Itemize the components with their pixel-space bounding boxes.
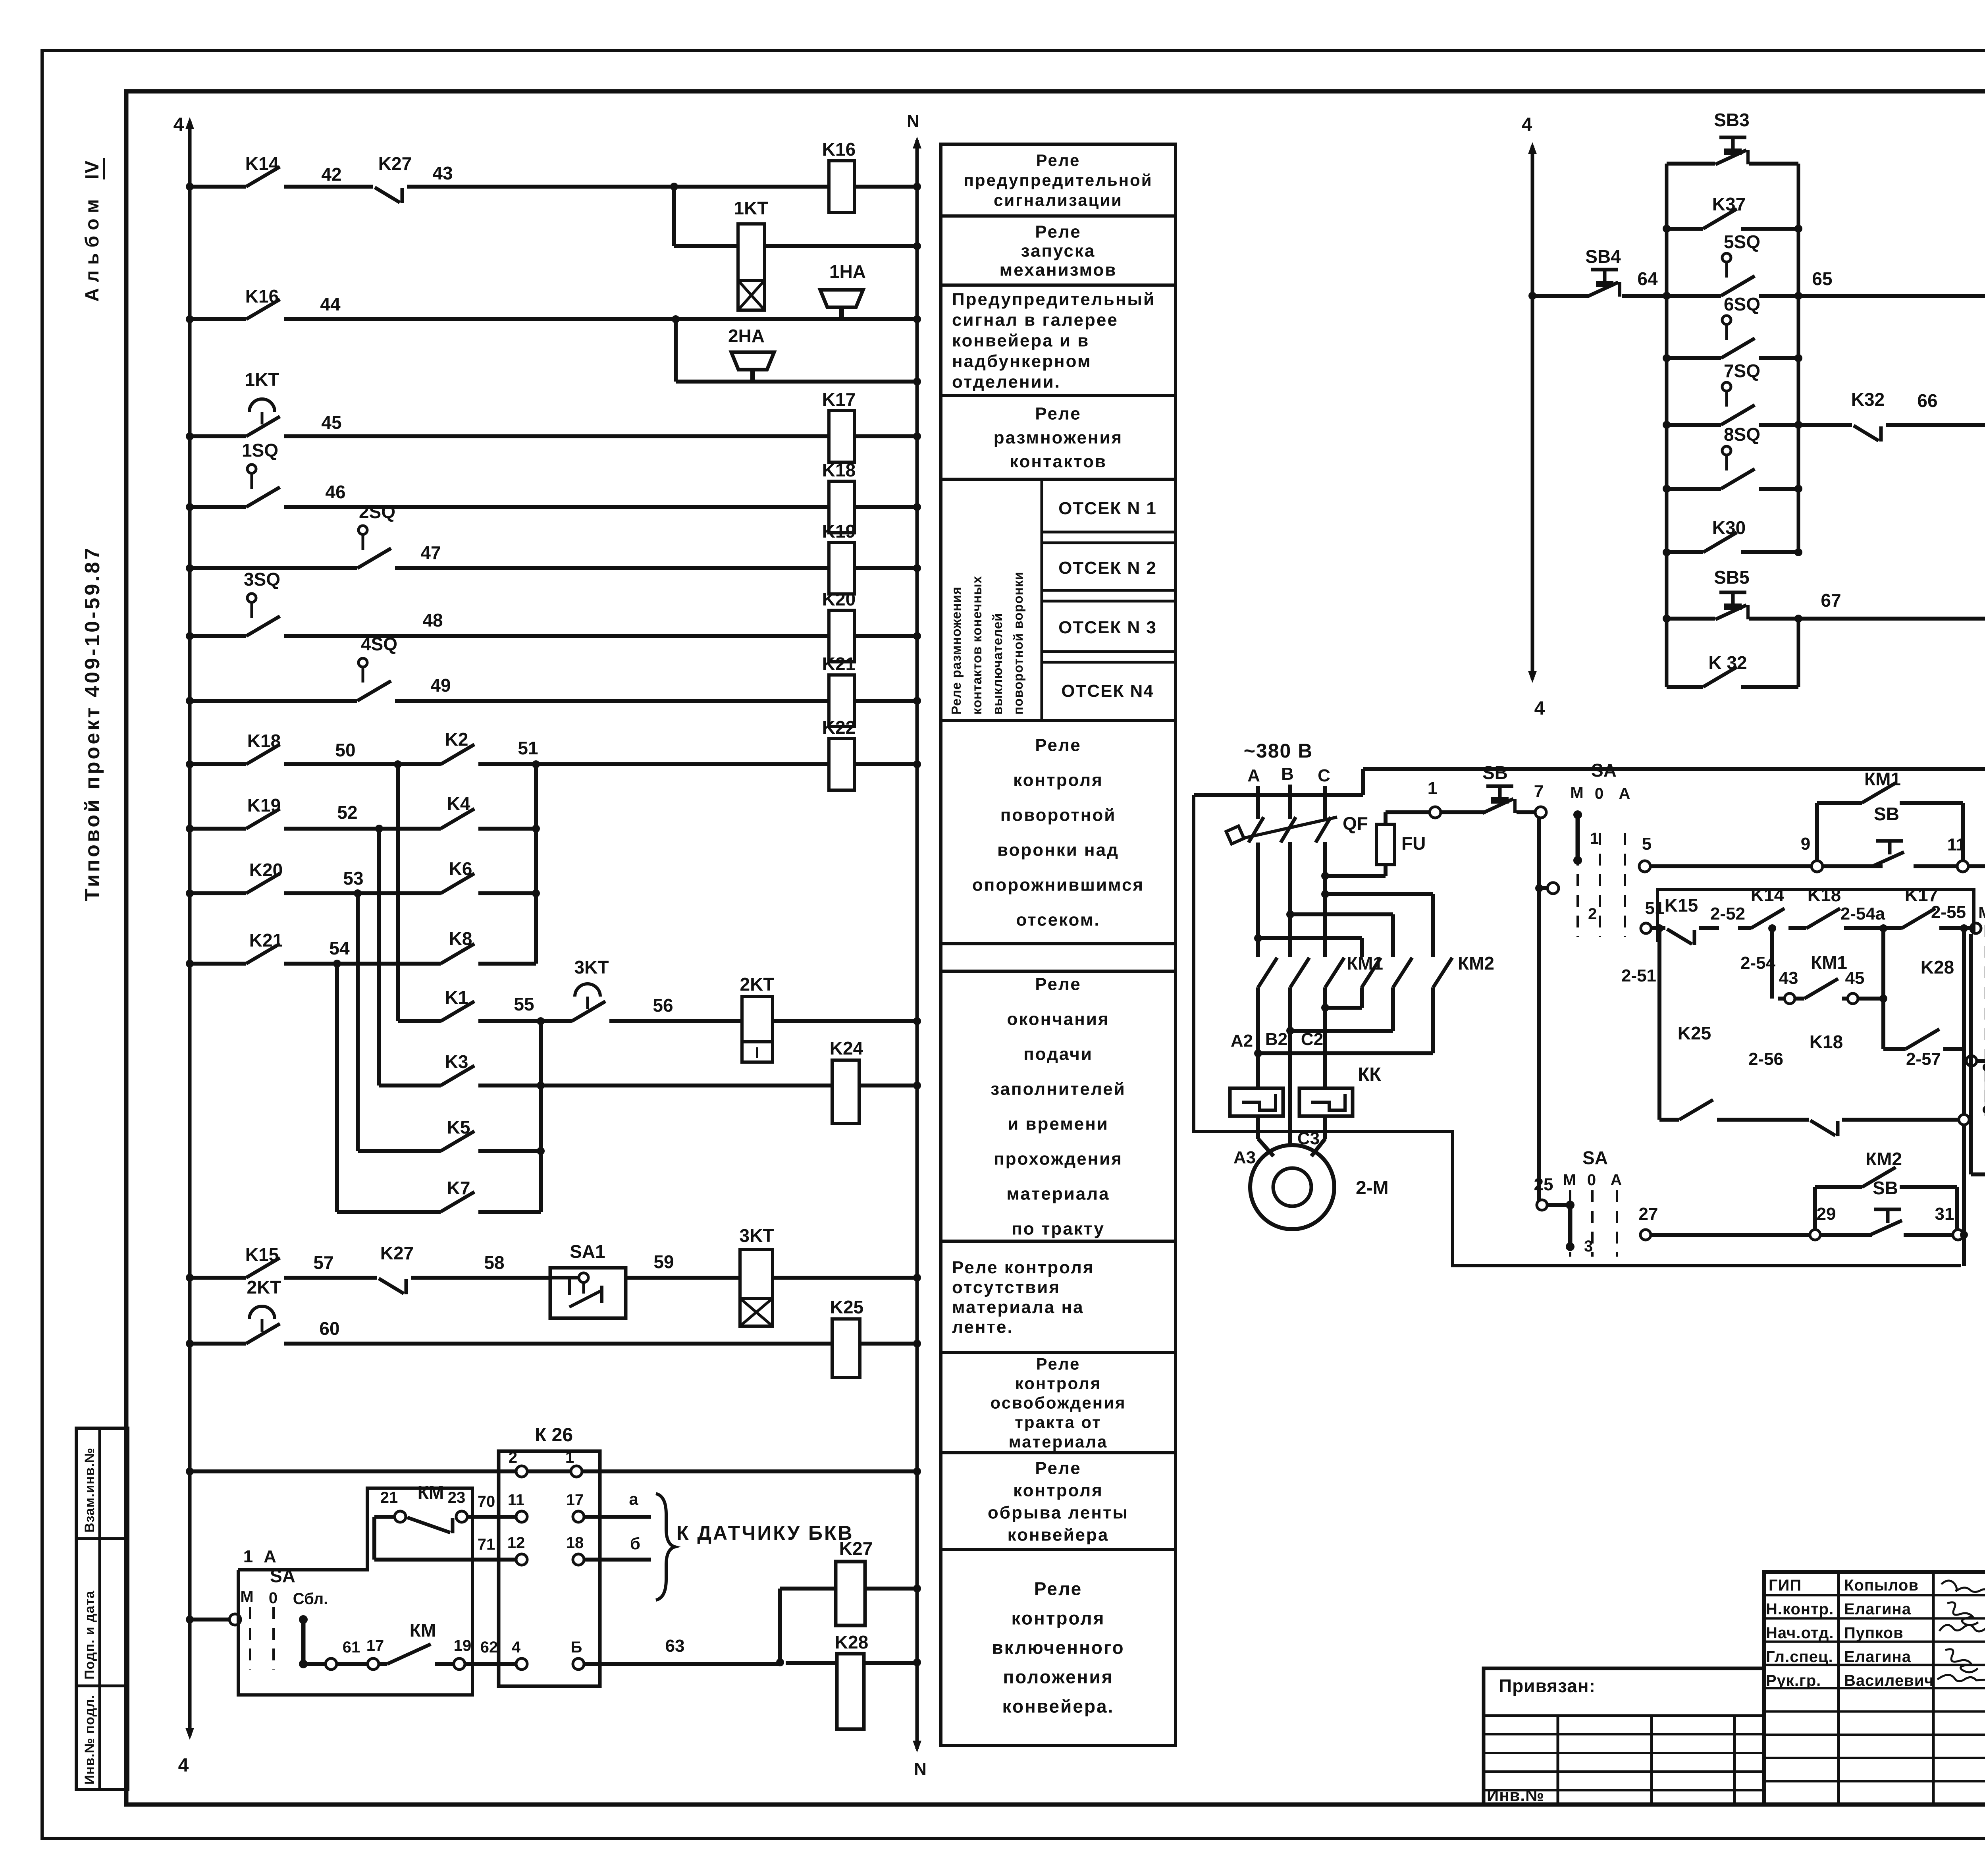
wire crossover C2: [1323, 987, 1327, 1008]
svg-text:12: 12: [507, 1534, 525, 1552]
contact K14: [246, 167, 280, 187]
junction A to KM2: [1254, 934, 1262, 942]
svg-text:1KT: 1KT: [734, 198, 769, 218]
thermal relay KK heater left: [1230, 1088, 1283, 1116]
svg-text:K21: K21: [249, 930, 283, 951]
svg-text:подачи: подачи: [1023, 1044, 1093, 1064]
junction K5 at node F vertical: [537, 1147, 545, 1155]
branch contact 7SQ: [1667, 423, 1721, 427]
limit switch contact 7SQ: [1722, 382, 1731, 391]
wire 70 from terminal 23 to pin 11: [467, 1515, 516, 1519]
svg-text:K7: K7: [447, 1178, 470, 1198]
wire rung 50-51: [190, 762, 246, 766]
junction B to KM2: [1286, 910, 1294, 918]
svg-text:опорожнившимся: опорожнившимся: [972, 875, 1144, 895]
selector switch SA middle dashed columns: [1985, 925, 1985, 1116]
junction K27 at N bus: [913, 1585, 921, 1593]
junction rung18 at N bus: [913, 1467, 921, 1475]
svg-text:1HA: 1HA: [829, 261, 866, 282]
contact segment SA M upper: [1576, 815, 1580, 860]
brace to BKV sensor: [656, 1494, 675, 1600]
wire crossover A2: [1256, 987, 1260, 1053]
terminal 1 control feed: [1430, 807, 1441, 818]
svg-text:K20: K20: [249, 860, 283, 880]
svg-text:K15: K15: [245, 1244, 279, 1265]
wire rung 46: [190, 505, 246, 509]
contact K15 (NC): [1667, 929, 1692, 944]
right rail of parallel group upper: [1797, 164, 1800, 552]
junction rung1 to 1KT branch: [670, 183, 678, 191]
svg-text:контроля: контроля: [1012, 1608, 1105, 1629]
svg-text:А: А: [1619, 785, 1630, 802]
svg-text:3SQ: 3SQ: [244, 569, 280, 590]
svg-text:FU: FU: [1401, 833, 1426, 854]
svg-text:K27: K27: [839, 1538, 873, 1559]
wire rung 47: [190, 566, 357, 570]
svg-text:64: 64: [1637, 268, 1658, 289]
svg-text:ленте.: ленте.: [952, 1317, 1014, 1337]
text cell otsek N1: [1042, 531, 1176, 534]
rung 64-65 from bus: [1532, 294, 1588, 298]
svg-text:56: 56: [653, 995, 673, 1016]
text box relay funnel control: [941, 721, 1176, 944]
horn 2HA: [750, 370, 755, 382]
terminal 27: [1640, 1230, 1651, 1240]
terminal 29: [1810, 1230, 1820, 1240]
svg-text:61: 61: [343, 1639, 360, 1656]
svg-text:K19: K19: [247, 795, 281, 816]
svg-text:5: 5: [1642, 834, 1652, 854]
contact segment SA Sbl: [301, 1620, 306, 1664]
rung 37-39 KM2 coil: [1977, 1059, 1985, 1063]
node F junction 55: [537, 1017, 545, 1025]
svg-text:0: 0: [269, 1589, 278, 1607]
svg-text:ГИП: ГИП: [1769, 1577, 1802, 1594]
contact K32 aux: [1703, 667, 1737, 687]
limit switch contact 6SQ: [1722, 316, 1731, 324]
terminal 7: [1535, 807, 1546, 818]
contact K27 (NC): [375, 187, 400, 202]
svg-text:2-М: 2-М: [1356, 1178, 1389, 1199]
svg-text:60: 60: [319, 1318, 339, 1339]
wire rung 42-43: [190, 185, 246, 189]
svg-text:1SQ: 1SQ: [242, 440, 278, 461]
contact K18 (aux): [246, 744, 280, 764]
svg-text:С2: С2: [1301, 1030, 1323, 1049]
svg-text:42: 42: [321, 164, 341, 185]
wire phase B top: [1288, 785, 1292, 819]
svg-text:K28: K28: [1921, 957, 1954, 978]
node A junction rung50: [394, 760, 402, 768]
contactor KM1 main contacts: [1258, 958, 1277, 987]
svg-text:5SQ: 5SQ: [1724, 231, 1760, 252]
svg-text:4: 4: [173, 114, 184, 135]
wire 2-55 loop to 2A: [1969, 934, 1973, 1174]
svg-text:8SQ: 8SQ: [1724, 424, 1760, 445]
motor 2-M: [1250, 1145, 1334, 1229]
svg-text:3: 3: [1584, 1238, 1593, 1255]
terminal 2 stub: [1548, 883, 1559, 894]
svg-text:11: 11: [508, 1491, 524, 1509]
svg-text:выключателей: выключателей: [990, 613, 1005, 715]
limit switch contact 8SQ: [1722, 446, 1731, 455]
junction rung 56 at N bus: [913, 1017, 921, 1025]
relay coil K28: [837, 1654, 864, 1729]
branch contact K30: [1667, 550, 1703, 554]
wire b from pin 18: [584, 1558, 651, 1562]
svg-text:K20: K20: [822, 589, 856, 609]
terminal 43: [1785, 993, 1795, 1004]
svg-text:размножения: размножения: [994, 428, 1123, 447]
wire 65 to K30 coil: [1798, 294, 1985, 298]
svg-text:2KT: 2KT: [740, 974, 775, 995]
left rail of parallel group: [1665, 164, 1669, 687]
svg-text:53: 53: [343, 868, 363, 889]
relay coil K18: [829, 481, 854, 533]
junction K28 at N bus: [913, 1658, 921, 1666]
wire rung 5-9-11-17-19 KM1 coil: [1650, 864, 1812, 868]
wire outputs to KK: [1256, 1053, 1260, 1088]
svg-text:С: С: [1318, 766, 1330, 785]
wire phase A below QF: [1256, 843, 1260, 957]
svg-text:обрыва ленты: обрыва ленты: [988, 1503, 1129, 1522]
text box warning signal description: [941, 285, 1176, 395]
wire rung K5: [478, 1149, 541, 1153]
svg-text:K22: K22: [822, 717, 856, 738]
contact KM (NC) in loop: [407, 1517, 450, 1533]
selector switch SA1: [550, 1268, 626, 1318]
svg-text:Рук.гр.: Рук.гр.: [1766, 1672, 1821, 1689]
wire KM1 bypass loop 43-45: [1770, 928, 1774, 999]
wire rung 53: [190, 891, 246, 895]
wire rung 54: [190, 962, 246, 966]
right rail of parallel group lower: [1797, 619, 1800, 687]
svg-text:66: 66: [1917, 390, 1937, 411]
junction on bus rung1: [186, 183, 194, 191]
wire rung 55-56: [478, 1019, 572, 1023]
svg-text:2-57: 2-57: [1906, 1049, 1941, 1069]
svg-text:SB: SB: [1873, 1178, 1898, 1198]
svg-text:отсутствия: отсутствия: [952, 1278, 1060, 1297]
svg-text:Пупков: Пупков: [1844, 1624, 1904, 1642]
svg-text:материала: материала: [1006, 1184, 1110, 1203]
svg-text:М: М: [1563, 1171, 1576, 1189]
svg-text:SA: SA: [1582, 1147, 1608, 1168]
thermal relay KK heater right: [1299, 1088, 1353, 1116]
wire phase A top: [1256, 786, 1260, 819]
wire 63 from pin B: [584, 1662, 780, 1666]
svg-text:SA: SA: [1591, 760, 1617, 781]
svg-text:по тракту: по тракту: [1012, 1219, 1105, 1238]
svg-text:Реле размножения: Реле размножения: [949, 586, 964, 715]
svg-text:контроля: контроля: [1013, 1481, 1103, 1500]
terminal 45: [1848, 993, 1858, 1004]
relay coil K20: [829, 610, 854, 662]
svg-text:Нач.отд.: Нач.отд.: [1766, 1624, 1834, 1642]
svg-text:K18: K18: [822, 460, 856, 480]
wire K28 coil to N: [864, 1661, 917, 1665]
relay coil K25: [832, 1319, 860, 1377]
sidebar stamp boxes: [76, 1428, 128, 1789]
main relay rung 51 / K15 / K14 / K18 / K17: [1652, 926, 1665, 930]
junction on bus rung8: [186, 760, 194, 768]
contact K3: [441, 1066, 474, 1085]
wire vertical to boundary: [1962, 1235, 1966, 1266]
svg-text:52: 52: [337, 802, 357, 823]
terminal M of switch SA: [229, 1614, 241, 1625]
contactor KM2 main contacts: [1362, 958, 1381, 987]
svg-text:поворотной воронки: поворотной воронки: [1011, 572, 1025, 715]
relay coil K27: [836, 1562, 865, 1625]
privyazan block: [1484, 1668, 1764, 1805]
text box relay end of feed: [941, 971, 1176, 1241]
svg-text:Василевич: Василевич: [1844, 1672, 1934, 1689]
svg-text:K17: K17: [822, 389, 856, 410]
svg-text:N: N: [907, 112, 919, 131]
branch contact K32 (bottom): [1667, 685, 1703, 689]
svg-text:K18: K18: [1808, 885, 1841, 905]
svg-text:2-52: 2-52: [1710, 904, 1745, 924]
svg-text:заполнителей: заполнителей: [991, 1079, 1126, 1099]
junction rung K24 at N bus: [913, 1082, 921, 1089]
svg-text:4: 4: [1522, 114, 1532, 135]
junction rung8 at N bus: [913, 760, 921, 768]
wire vertical node B (51 column): [534, 764, 538, 964]
pushbutton SB3: [1719, 136, 1746, 139]
wire K27 coil to N: [865, 1587, 917, 1591]
wire phase C below QF: [1323, 842, 1327, 957]
wire vertical node C to K3 rung: [377, 829, 381, 1085]
junction rung2 at N bus: [913, 315, 921, 323]
svg-text:62: 62: [480, 1639, 498, 1656]
svg-text:K14: K14: [1751, 885, 1785, 905]
terminal 51 motor rung: [1641, 923, 1651, 933]
svg-text:ОТСЕК N4: ОТСЕК N4: [1061, 681, 1154, 701]
wire vertical node D to K5 rung: [356, 893, 360, 1151]
svg-text:K 32: K 32: [1708, 652, 1747, 673]
relay coil K22: [829, 738, 854, 790]
svg-text:КМ2: КМ2: [1866, 1149, 1902, 1169]
time contact 1KT: [246, 416, 280, 436]
contact K28 loop: [1883, 1047, 1906, 1051]
wire rung 45: [190, 434, 246, 438]
junction 43-45 at 2-54a vertical: [1879, 995, 1887, 1003]
wire vertical node A to K1 rung: [396, 764, 400, 1021]
svg-text:Инв.№ подл.: Инв.№ подл.: [82, 1695, 97, 1785]
junction rung 60 at N bus: [913, 1340, 921, 1348]
svg-text:58: 58: [484, 1252, 504, 1273]
pin B of K26: [573, 1658, 584, 1670]
contact segment SA M bottom: [1568, 1205, 1573, 1247]
svg-text:ОТСЕК N 1: ОТСЕК N 1: [1058, 499, 1157, 518]
svg-text:2-54: 2-54: [1740, 953, 1776, 973]
svg-text:17: 17: [366, 1637, 384, 1654]
svg-text:QF: QF: [1343, 813, 1368, 834]
rung 25 to SA lower: [1548, 1203, 1570, 1207]
svg-text:K1: K1: [445, 987, 468, 1008]
svg-text:ОТСЕК N 3: ОТСЕК N 3: [1058, 618, 1157, 637]
junction on bus rung6: [186, 632, 194, 640]
svg-text:2-51: 2-51: [1621, 966, 1656, 985]
svg-text:K3: K3: [445, 1051, 468, 1072]
wire 61-17-KM-19-62 to pin 4: [303, 1662, 326, 1666]
svg-text:контроля: контроля: [1013, 770, 1103, 790]
svg-text:50: 50: [335, 740, 355, 760]
junction 2-54 branch: [1768, 924, 1776, 932]
svg-text:надбункерном: надбункерном: [952, 351, 1091, 371]
wire rung SA to terminal: [190, 1618, 229, 1621]
svg-text:2-56: 2-56: [1748, 1049, 1783, 1069]
svg-text:19: 19: [454, 1637, 472, 1654]
limit switch contact 1SQ: [247, 465, 256, 473]
svg-text:K25: K25: [830, 1297, 863, 1317]
terminal 19 wire: [454, 1658, 465, 1670]
svg-text:K19: K19: [822, 521, 856, 542]
wire crossover B2: [1288, 987, 1292, 1031]
pushbutton SB4: [1591, 268, 1618, 272]
text box relay belt break: [941, 1453, 1176, 1550]
wire KM1 self hold loop: [1815, 803, 1819, 861]
wire B to KM2 middle pole: [1290, 912, 1393, 916]
wire 7 vertical: [1537, 817, 1541, 1205]
svg-text:поворотной: поворотной: [1000, 805, 1116, 825]
svg-text:Реле: Реле: [1035, 735, 1081, 755]
svg-text:КМ1: КМ1: [1811, 952, 1847, 973]
svg-text:ОТСЕК N 2: ОТСЕК N 2: [1058, 558, 1157, 578]
svg-text:КК: КК: [1358, 1064, 1381, 1085]
svg-text:SB: SB: [1482, 762, 1508, 783]
bus N (left ladder) with arrows: [915, 140, 919, 1749]
wire phase B below QF: [1288, 842, 1292, 957]
pin 1 of K26: [571, 1466, 582, 1477]
node D junction rung53: [354, 889, 362, 897]
text box relay path clearing: [941, 1353, 1176, 1453]
svg-text:18: 18: [566, 1534, 584, 1552]
terminal 31: [1953, 1230, 1963, 1240]
svg-text:Предупредительный: Предупредительный: [952, 289, 1155, 309]
contact K2: [441, 744, 474, 764]
junction rung2 to 2HA branch: [672, 315, 680, 323]
junction rung 59 at N bus: [913, 1274, 921, 1282]
svg-text:4: 4: [178, 1755, 189, 1776]
svg-text:тракта от: тракта от: [1015, 1413, 1101, 1432]
wire rung to K26 pin2-pin1: [190, 1469, 917, 1473]
svg-text:А3: А3: [1233, 1148, 1256, 1167]
start button SB (KM2): [1874, 1208, 1901, 1211]
svg-text:1: 1: [1590, 830, 1599, 847]
svg-text:1: 1: [565, 1449, 574, 1466]
wire rung 49: [190, 699, 357, 703]
fuse FU: [1325, 874, 1386, 878]
svg-text:Гл.спец.: Гл.спец.: [1766, 1648, 1833, 1666]
contact K21 (aux): [246, 944, 280, 964]
wire phase C top: [1323, 786, 1327, 819]
horn 1HA: [839, 307, 844, 319]
svg-text:K24: K24: [830, 1038, 863, 1059]
svg-text:контактов конечных: контактов конечных: [969, 576, 984, 715]
wire KM2 self hold loop: [1813, 1187, 1817, 1230]
contact K18 (NC): [1810, 1120, 1835, 1136]
contact K5: [441, 1131, 474, 1151]
bus 4 (left ladder) with arrows: [188, 121, 192, 1736]
svg-text:материала на: материала на: [952, 1298, 1084, 1317]
svg-text:3KT: 3KT: [574, 957, 609, 978]
svg-text:1: 1: [1428, 779, 1437, 798]
wire A to KM2 left pole: [1258, 936, 1362, 940]
svg-text:SB4: SB4: [1585, 246, 1621, 267]
switch SA dashed columns: [249, 1607, 251, 1670]
svg-text:4SQ: 4SQ: [361, 634, 397, 654]
svg-text:Реле: Реле: [1035, 404, 1081, 424]
svg-text:конвейера и в: конвейера и в: [952, 331, 1089, 350]
text box otsek relays outer: [941, 479, 1176, 721]
junction on bus rung10: [186, 889, 194, 897]
selector switch SA upper dashed columns: [1576, 833, 1579, 937]
wire rung 48: [190, 634, 246, 638]
svg-text:Сбл.: Сбл.: [293, 1590, 328, 1608]
start button SB (KM1): [1876, 839, 1903, 843]
svg-text:и времени: и времени: [1008, 1114, 1109, 1134]
svg-text:Типовой проект 409-10-59.87: Типовой проект 409-10-59.87: [81, 546, 104, 901]
limit switch contact 3SQ: [247, 594, 256, 602]
svg-text:25: 25: [1534, 1175, 1553, 1194]
signature of Elagina 1: [1947, 1602, 1978, 1625]
contact K30: [1703, 532, 1737, 552]
signature of Kopylov: [1941, 1581, 1985, 1592]
svg-text:K5: K5: [447, 1117, 470, 1138]
svg-text:Подп. и дата: Подп. и дата: [82, 1591, 97, 1679]
svg-text:N: N: [914, 1759, 927, 1779]
svg-text:Привязан:: Привязан:: [1499, 1675, 1596, 1696]
svg-text:КМ: КМ: [410, 1620, 436, 1641]
contact K8: [441, 944, 474, 964]
svg-text:23: 23: [448, 1489, 466, 1506]
junction rung4 at N bus: [913, 503, 921, 511]
circuit breaker QF: [1249, 817, 1264, 843]
branch contact K37: [1667, 227, 1703, 231]
terminal 11: [1957, 861, 1968, 872]
svg-text:71: 71: [478, 1536, 495, 1553]
svg-text:материала: материала: [1009, 1433, 1108, 1451]
svg-text:В: В: [1281, 764, 1294, 784]
limit switch contact 4SQ: [358, 658, 367, 667]
svg-text:б: б: [630, 1534, 640, 1553]
contact KM1 bypass: [1804, 979, 1838, 999]
wire C to KM2 right pole: [1325, 892, 1433, 896]
svg-text:K8: K8: [449, 928, 472, 949]
junction 1KT at N bus: [913, 242, 921, 250]
svg-text:67: 67: [1821, 590, 1841, 611]
svg-text:27: 27: [1639, 1204, 1658, 1224]
svg-text:Инв.№: Инв.№: [1487, 1786, 1544, 1805]
svg-text:контактов: контактов: [1010, 452, 1107, 471]
svg-text:4: 4: [512, 1639, 521, 1656]
text box relay conveyor on position: [941, 1550, 1176, 1745]
signature of Pupkov: [1939, 1625, 1985, 1631]
svg-text:А: А: [1247, 766, 1260, 785]
svg-text:сигнал в галерее: сигнал в галерее: [952, 310, 1118, 330]
svg-text:предупредительной: предупредительной: [964, 171, 1152, 189]
text box empty spacer: [941, 944, 1176, 971]
title block outer: [1764, 1572, 1985, 1805]
contact K27 (NC aux): [379, 1278, 404, 1294]
svg-text:48: 48: [422, 610, 443, 630]
svg-text:4: 4: [1534, 698, 1545, 719]
contact KM1 self hold: [1862, 783, 1896, 803]
svg-text:55: 55: [514, 994, 534, 1014]
svg-text:М: М: [1570, 784, 1583, 802]
junction 31 at vertical: [1960, 1231, 1968, 1239]
